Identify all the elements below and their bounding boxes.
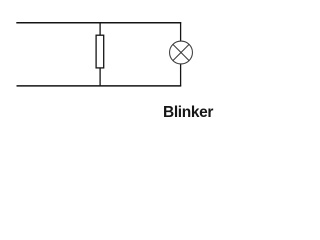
lamp Blinker circle — [170, 41, 193, 64]
wire lamp bottom lead — [180, 64, 182, 86]
label Blinker — [163, 104, 213, 122]
wire resistor bottom lead — [99, 68, 101, 86]
wire lamp top lead — [180, 22, 182, 41]
wire resistor top lead — [99, 22, 101, 35]
resistor R1 — [96, 35, 104, 68]
lamp cross stroke 2 — [173, 44, 189, 60]
wire bottom bus — [17, 85, 182, 87]
wire top bus — [16, 22, 181, 24]
lamp cross stroke 1 — [173, 44, 189, 60]
